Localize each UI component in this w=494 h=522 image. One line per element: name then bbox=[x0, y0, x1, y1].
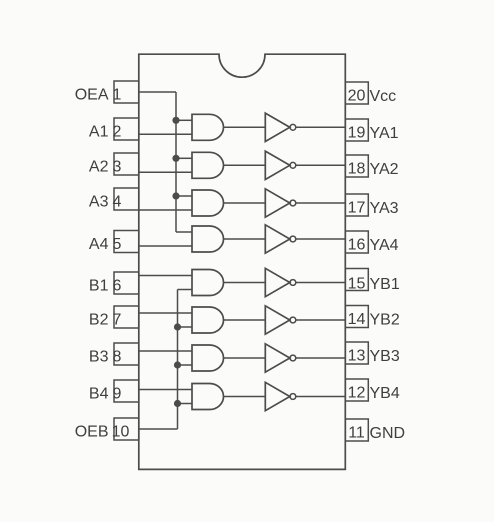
inverter U4 (triangle) bbox=[265, 225, 290, 253]
wire inverter U5 to right pin bbox=[296, 282, 345, 284]
pin 16 (YA4) box bbox=[345, 231, 368, 253]
AND gate G7 bbox=[192, 345, 224, 371]
svg-text:5: 5 bbox=[113, 236, 122, 253]
wire pin 3 (A2) to gate G2 input bbox=[139, 171, 192, 173]
svg-text:YB3: YB3 bbox=[370, 348, 400, 365]
svg-text:Vcc: Vcc bbox=[370, 88, 397, 105]
pin 14 (YB2) box bbox=[345, 306, 368, 328]
inverter U5 (triangle) bbox=[265, 268, 290, 296]
svg-text:4: 4 bbox=[113, 194, 122, 211]
inverter U2 bubble bbox=[290, 162, 296, 168]
svg-text:YA2: YA2 bbox=[370, 161, 399, 178]
inverter U8 bubble bbox=[290, 394, 296, 400]
junction node OEB/G6 bbox=[174, 323, 181, 330]
svg-text:YA1: YA1 bbox=[370, 125, 399, 142]
AND gate G6 bbox=[192, 307, 224, 333]
svg-text:GND: GND bbox=[370, 425, 406, 442]
wire G6 output to inverter U6 bbox=[224, 319, 266, 321]
wire inverter U7 to right pin bbox=[296, 357, 345, 359]
wire G7 output to inverter U7 bbox=[224, 357, 266, 359]
svg-text:OEA: OEA bbox=[75, 87, 109, 104]
junction node OEB/G7 bbox=[174, 361, 181, 368]
svg-text:YB4: YB4 bbox=[370, 385, 400, 402]
wire OEB stub to G8 bottom input bbox=[178, 403, 193, 405]
svg-text:13: 13 bbox=[348, 348, 366, 365]
wire inverter U6 to right pin bbox=[296, 319, 345, 321]
svg-text:11: 11 bbox=[348, 425, 365, 442]
svg-text:8: 8 bbox=[113, 349, 122, 366]
svg-text:17: 17 bbox=[348, 200, 366, 217]
pin 4 (A3) box bbox=[114, 188, 139, 210]
svg-text:19: 19 bbox=[348, 125, 366, 142]
svg-text:B2: B2 bbox=[89, 312, 109, 329]
inverter U3 (triangle) bbox=[265, 189, 290, 217]
wire inverter U3 to right pin bbox=[296, 202, 345, 204]
wire pin 7 (B2) to gate G6 input bbox=[139, 312, 192, 314]
pin 18 (YA2) box bbox=[345, 155, 368, 177]
inverter U6 (triangle) bbox=[265, 306, 290, 334]
wire G4 output to inverter U4 bbox=[224, 238, 266, 240]
wire pin 4 (A3) to gate G3 input bbox=[139, 209, 192, 211]
AND gate G2 bbox=[192, 152, 224, 178]
svg-text:A1: A1 bbox=[89, 124, 109, 141]
svg-text:6: 6 bbox=[113, 278, 122, 295]
svg-text:YA3: YA3 bbox=[370, 200, 399, 217]
svg-text:A3: A3 bbox=[89, 194, 109, 211]
pin 15 (YB1) box bbox=[345, 269, 368, 291]
pin 8 (B3) box bbox=[114, 343, 139, 365]
svg-text:20: 20 bbox=[348, 88, 366, 105]
wire G1 output to inverter U1 bbox=[224, 126, 266, 128]
junction node OEB/G8 bbox=[174, 400, 181, 407]
wire pin 8 (B3) to gate G7 input bbox=[139, 350, 192, 352]
svg-text:YA4: YA4 bbox=[370, 237, 399, 254]
pin 13 (YB3) box bbox=[345, 342, 368, 364]
wire OEB elbow to G5 bottom input bbox=[178, 289, 193, 291]
pin 11 (GND) box bbox=[345, 419, 368, 441]
wire OEA stub to G3 top input bbox=[176, 195, 192, 197]
inverter U6 bubble bbox=[290, 317, 296, 323]
wire OEA stub to G2 top input bbox=[176, 157, 192, 159]
pin 6 (B1) box bbox=[114, 272, 139, 294]
wire OEA elbow to G4 top input bbox=[176, 231, 192, 233]
svg-text:3: 3 bbox=[113, 159, 122, 176]
svg-text:B1: B1 bbox=[89, 278, 109, 295]
svg-text:YB2: YB2 bbox=[370, 312, 400, 329]
wire inverter U2 to right pin bbox=[296, 164, 345, 166]
AND gate G4 bbox=[192, 226, 224, 252]
wire G2 output to inverter U2 bbox=[224, 164, 266, 166]
wire inverter U1 to right pin bbox=[296, 126, 345, 128]
svg-text:YB1: YB1 bbox=[370, 276, 400, 293]
wire OEA stub to G1 top input bbox=[176, 119, 192, 121]
inverter U1 bubble bbox=[290, 124, 296, 130]
wire inverter U4 to right pin bbox=[296, 238, 345, 240]
wire OEB stub to G6 bottom input bbox=[178, 326, 193, 328]
svg-text:B4: B4 bbox=[89, 386, 109, 403]
svg-text:7: 7 bbox=[113, 312, 122, 329]
inverter U5 bubble bbox=[290, 280, 296, 286]
svg-text:18: 18 bbox=[348, 161, 366, 178]
svg-text:1: 1 bbox=[113, 87, 122, 104]
inverter U1 (triangle) bbox=[265, 113, 290, 141]
svg-text:9: 9 bbox=[113, 386, 122, 403]
pin 17 (YA3) box bbox=[345, 194, 368, 216]
inverter U7 (triangle) bbox=[265, 344, 290, 372]
pin 12 (YB4) box bbox=[345, 379, 368, 401]
svg-text:A2: A2 bbox=[89, 159, 109, 176]
pin 2 (A1) box bbox=[114, 118, 139, 140]
AND gate G5 bbox=[192, 270, 224, 296]
pin 3 (A2) box bbox=[114, 153, 139, 175]
svg-text:B3: B3 bbox=[89, 349, 109, 366]
junction node OEA/G2 bbox=[172, 155, 179, 162]
junction node OEA/G1 bbox=[172, 117, 179, 124]
inverter U3 bubble bbox=[290, 200, 296, 206]
svg-text:16: 16 bbox=[348, 237, 366, 254]
wire inverter U8 to right pin bbox=[296, 396, 345, 398]
junction node OEA/G3 bbox=[172, 192, 179, 199]
AND gate G3 bbox=[192, 190, 224, 216]
inverter U4 bubble bbox=[290, 236, 296, 242]
IC body U1 (20-pin DIP outline with notch) bbox=[139, 54, 345, 469]
pin 5 (A4) box bbox=[114, 231, 139, 253]
inverter U7 bubble bbox=[290, 355, 296, 361]
svg-text:A4: A4 bbox=[89, 236, 109, 253]
wire G3 output to inverter U3 bbox=[224, 202, 266, 204]
wire OEB stub to G7 bottom input bbox=[178, 364, 193, 366]
pin 20 (Vcc) box bbox=[345, 82, 368, 104]
wire G5 output to inverter U5 bbox=[224, 282, 266, 284]
svg-text:2: 2 bbox=[113, 124, 122, 141]
inverter U8 (triangle) bbox=[265, 382, 290, 410]
svg-text:14: 14 bbox=[348, 311, 366, 328]
svg-text:12: 12 bbox=[348, 385, 366, 402]
pin 19 (YA1) box bbox=[345, 119, 368, 141]
svg-text:15: 15 bbox=[348, 276, 366, 293]
pin 1 (OEA) box bbox=[114, 81, 139, 103]
pin 9 (B4) box bbox=[114, 380, 139, 402]
wire OEB pin 10 horizontal bbox=[139, 428, 178, 430]
wire OEA pin 1 horizontal bbox=[139, 91, 176, 93]
wire pin 2 (A1) to gate G1 input bbox=[139, 133, 192, 135]
svg-text:10: 10 bbox=[112, 424, 130, 441]
wire G8 output to inverter U8 bbox=[224, 396, 266, 398]
inverter U2 (triangle) bbox=[265, 151, 290, 179]
AND gate G8 bbox=[192, 384, 224, 410]
AND gate G1 bbox=[192, 114, 224, 140]
pin 7 (B2) box bbox=[114, 306, 139, 328]
wire OEA vertical bus bbox=[175, 92, 177, 232]
wire pin 5 (A4) to gate G4 input bbox=[139, 245, 192, 247]
svg-text:OEB: OEB bbox=[75, 424, 109, 441]
wire OEB vertical bus bbox=[177, 290, 179, 430]
wire pin 9 (B4) to gate G8 input bbox=[139, 389, 192, 391]
pin 10 (OEB) box bbox=[114, 418, 139, 440]
wire pin 6 (B1) to gate G5 input bbox=[139, 275, 192, 277]
